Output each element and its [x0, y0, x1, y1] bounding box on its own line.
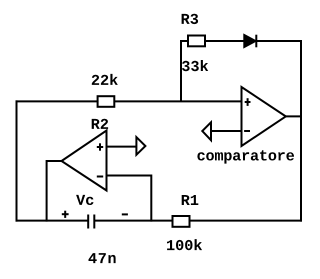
wire comparator output	[284, 115, 302, 117]
capacitor minus polarity sign	[122, 213, 128, 215]
diode D1	[244, 35, 256, 48]
wire 33k vertical	[180, 40, 182, 101]
wire R3/diode horizontal	[181, 40, 302, 42]
label Vc capacitor	[76, 195, 93, 205]
label 22k resistor value	[92, 74, 118, 85]
wire bottom right segment	[95, 220, 303, 222]
wire comparator inverting input	[211, 130, 243, 132]
port arrow right at U1 output	[136, 137, 145, 155]
label R1	[182, 195, 199, 205]
op-amp U1 minus sign	[97, 176, 103, 178]
capacitor plus polarity sign	[62, 211, 69, 218]
resistor R1 100k	[173, 216, 190, 227]
port arrow left at comparator inverting input	[202, 122, 211, 140]
comparator U2 triangle	[242, 87, 286, 146]
op-amp U1 plus sign	[97, 143, 103, 150]
label comparatore	[197, 150, 294, 163]
resistor R3 33k	[188, 36, 205, 47]
label 100k value of R1	[167, 239, 202, 250]
wire vertical from U1 output to bottom net	[46, 160, 48, 222]
wire op-amp U1 output	[47, 160, 63, 162]
resistor 22k	[98, 96, 115, 107]
capacitor Vc 47n plate left	[87, 215, 89, 229]
wire op-amp U1 non-inverting input	[106, 146, 137, 148]
wire right vertical	[300, 40, 302, 222]
wire left vertical	[16, 100, 18, 221]
op-amp U1 triangle	[62, 131, 107, 191]
wire vertical from inverting input to bottom net	[150, 175, 152, 222]
wire top net horizontal	[16, 100, 243, 102]
label R2 op-amp	[92, 119, 108, 129]
wire bottom left segment	[16, 220, 89, 222]
label 47n value of Vc	[89, 253, 116, 263]
wire op-amp U1 inverting input	[106, 175, 152, 177]
comparator U2 minus sign	[244, 130, 250, 132]
label R3	[182, 14, 199, 24]
capacitor Vc 47n plate right	[93, 215, 95, 229]
comparator U2 plus sign	[245, 98, 251, 106]
label 33k value of R3	[182, 60, 208, 71]
